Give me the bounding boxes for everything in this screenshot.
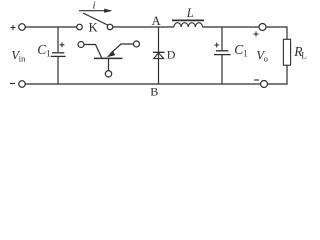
svg-text:L: L bbox=[301, 50, 307, 60]
capacitor C1 plus bbox=[60, 42, 65, 47]
svg-text:o: o bbox=[264, 54, 268, 64]
output terminal top bbox=[259, 24, 266, 31]
wire to load top bbox=[266, 26, 287, 28]
terminal input bottom bbox=[19, 81, 26, 88]
capacitor C1 plates bbox=[52, 52, 64, 54]
diode D lead wire bbox=[158, 27, 160, 84]
control lead right with arrow bbox=[111, 44, 134, 54]
plus sign input top bbox=[11, 25, 16, 30]
svg-text:D: D bbox=[167, 48, 176, 62]
capacitor Co plates bbox=[216, 50, 228, 52]
wire bottom rail bbox=[25, 83, 260, 85]
switch K blade bbox=[83, 13, 108, 25]
svg-text:B: B bbox=[150, 85, 158, 99]
svg-text:1: 1 bbox=[243, 48, 248, 58]
minus sign output bbox=[254, 79, 259, 81]
diode D triangle bbox=[154, 53, 164, 59]
capacitor C1 top lead bbox=[57, 27, 59, 52]
plus sign output bbox=[254, 32, 259, 37]
terminal input top bbox=[19, 24, 26, 31]
switch K left contact bbox=[77, 24, 83, 30]
svg-text:K: K bbox=[89, 20, 98, 34]
wire bottom rail right bbox=[268, 83, 288, 85]
wire top rail right bbox=[203, 26, 259, 28]
control bottom terminal bbox=[105, 71, 111, 77]
wire load bottom bbox=[286, 65, 288, 84]
capacitor Co plus bbox=[214, 43, 219, 48]
inductor L core bar bbox=[172, 19, 204, 21]
control lead left bbox=[84, 45, 102, 58]
wire load drop bbox=[286, 26, 288, 39]
svg-text:A: A bbox=[152, 14, 161, 28]
resistor RL body bbox=[283, 39, 290, 65]
wire top rail middle bbox=[113, 26, 174, 28]
minus sign input bbox=[10, 83, 15, 85]
control stem bbox=[108, 58, 110, 70]
svg-text:L: L bbox=[186, 6, 194, 20]
diode D cathode bar bbox=[153, 51, 165, 53]
wire top rail left bbox=[25, 26, 76, 28]
switch K right contact bbox=[107, 24, 113, 30]
current arrow over switch bbox=[79, 10, 105, 12]
output terminal bottom bbox=[261, 81, 268, 88]
capacitor Co top lead bbox=[221, 27, 223, 50]
control base bar bbox=[94, 57, 123, 59]
inductor L winding bbox=[174, 23, 202, 27]
capacitor Co bottom lead bbox=[221, 55, 223, 84]
svg-text:i: i bbox=[93, 0, 96, 12]
svg-text:in: in bbox=[19, 54, 26, 64]
control pole left contact bbox=[78, 42, 84, 48]
control right contact bbox=[134, 41, 140, 47]
capacitor C1 bottom lead bbox=[57, 56, 59, 84]
svg-text:1: 1 bbox=[46, 48, 51, 58]
